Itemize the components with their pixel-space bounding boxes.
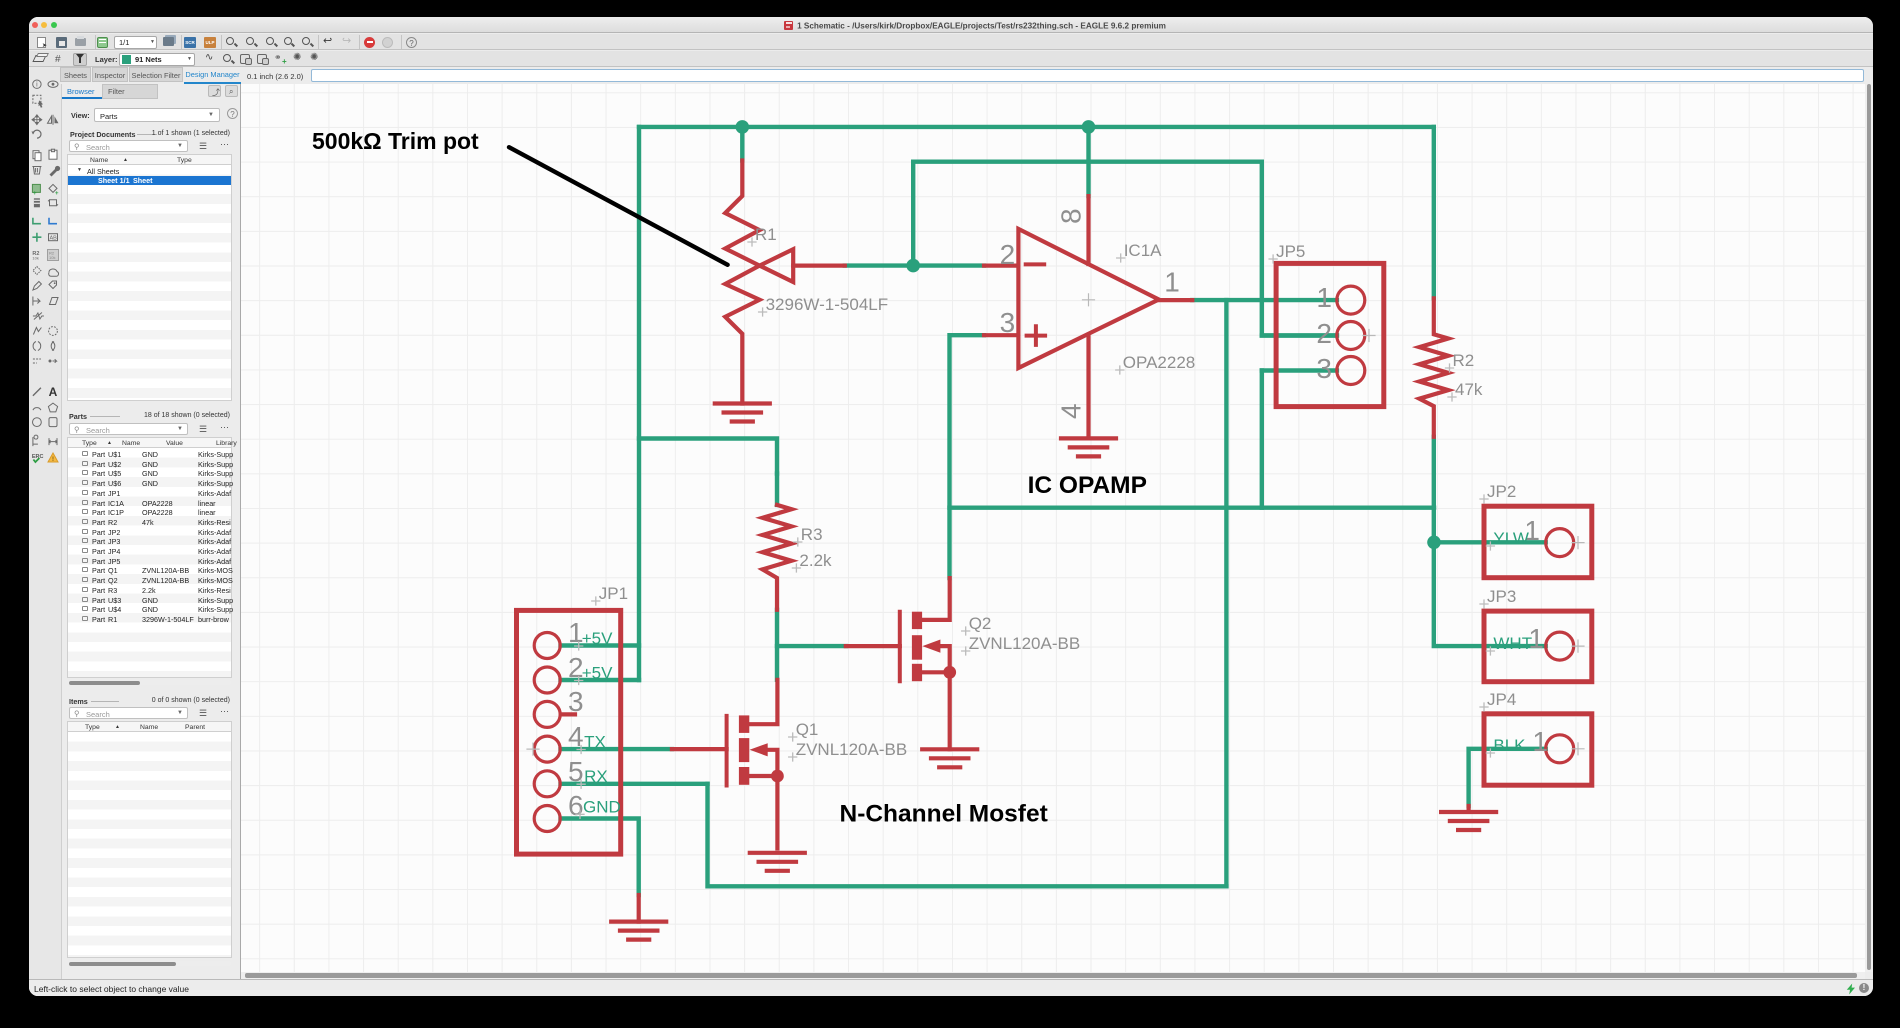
svg-text:4: 4 <box>1056 403 1087 419</box>
svg-text:JP1: JP1 <box>599 584 628 603</box>
svg-text:+5V: +5V <box>582 629 613 648</box>
pin number 2 JP5 <box>1316 318 1332 349</box>
wire R2 top net drop <box>1432 127 1436 298</box>
svg-text:+: + <box>33 191 37 197</box>
svg-text:8: 8 <box>1056 208 1087 224</box>
label Q2 value ZVNL120A-BB <box>962 634 1080 655</box>
wire JP5 pin2 stub part of feedback <box>1262 333 1337 337</box>
label JP1 name <box>592 584 628 605</box>
label IC1A value OPA2228 <box>1116 353 1195 374</box>
Project Documents <box>70 130 136 139</box>
ground U$1 under R1 <box>715 404 770 422</box>
wire R3 top teal segment <box>775 474 779 505</box>
svg-text:2.2k: 2.2k <box>799 551 832 570</box>
wire IC1A pin3 net <box>950 335 985 578</box>
net name +5V pin2 <box>575 664 613 685</box>
label R3 value 2.2k <box>792 551 832 572</box>
junction at IC1A pin8 drop on top rail <box>1082 120 1096 134</box>
wire JP5 pin3 stub <box>1262 368 1337 372</box>
svg-text:JP5: JP5 <box>1276 242 1305 261</box>
connector JP4 <box>1484 714 1592 785</box>
pin number 1 IC1A output <box>1164 266 1180 297</box>
svg-text:AB: AB <box>50 236 58 242</box>
label R2 value 47k <box>1448 380 1483 401</box>
label Q1 value ZVNL120A-BB <box>789 740 908 761</box>
ground U$6 under JP4 <box>1441 806 1496 830</box>
svg-text:OPA2228: OPA2228 <box>1123 353 1195 372</box>
svg-text:JP4: JP4 <box>1487 690 1516 709</box>
label R2 name <box>1446 351 1475 372</box>
canvas with schematic <box>241 84 1865 972</box>
svg-text:500kΩ Trim pot: 500kΩ Trim pot <box>312 128 479 154</box>
label R3 name <box>794 525 823 546</box>
title bar <box>29 17 1873 33</box>
svg-text:JP3: JP3 <box>1487 587 1516 606</box>
wire feedback up from wiper node <box>913 162 1337 336</box>
svg-text:!: ! <box>52 457 54 463</box>
tab row <box>60 67 241 84</box>
svg-text:1: 1 <box>1164 266 1180 297</box>
svg-text:3: 3 <box>1316 353 1332 384</box>
wire JP4 to ground <box>1469 749 1546 806</box>
wire JP1 pin4 TX to Q1 gate <box>561 747 672 751</box>
wire JP5 pin3 drop <box>1260 371 1264 508</box>
junction wiper node <box>906 259 920 273</box>
svg-text:i: i <box>36 82 38 89</box>
annotation arrow line to R1 <box>509 147 728 265</box>
wire IC1A output to JP5 pin1 <box>1192 298 1337 302</box>
svg-text:JP2: JP2 <box>1487 482 1516 501</box>
Browser / Filter tabs <box>67 87 95 96</box>
net name +5V pin1 <box>575 629 613 650</box>
net name TX <box>577 733 606 754</box>
label JP4 name <box>1480 690 1516 711</box>
connector JP2 <box>1484 506 1592 578</box>
svg-text:R2: R2 <box>1453 351 1475 370</box>
wire mid horizontal IC1A pin3 net to R2 bottom <box>950 506 1435 510</box>
net name BLK <box>1486 736 1526 757</box>
Items <box>69 697 88 706</box>
pin number 6 JP1 <box>568 790 584 821</box>
wire wiper to IC1A pin2 <box>845 263 984 267</box>
status bar <box>29 979 1873 996</box>
svg-text:+5V: +5V <box>582 664 613 683</box>
wire output drop to bottom rail <box>1224 300 1228 886</box>
pin number 3 JP5 <box>1316 353 1332 384</box>
svg-text:IC OPAMP: IC OPAMP <box>1028 472 1147 499</box>
svg-text:ZVNL120A-BB: ZVNL120A-BB <box>969 634 1080 653</box>
svg-text:1: 1 <box>1316 282 1332 313</box>
ground U$3 under Q1 <box>750 853 805 871</box>
toolbar row 1 <box>29 34 1873 50</box>
ground U$2 under IC1A pin4 <box>1061 438 1116 456</box>
net name RX <box>577 767 608 788</box>
annotation text IC OPAMP <box>1028 472 1147 499</box>
pin number 2 IC1A inverting <box>1000 239 1016 270</box>
trimpot R1 <box>725 161 845 404</box>
ground U$5 under JP1 pin6 <box>611 895 666 940</box>
pin number 1 JP2 <box>1524 515 1540 546</box>
connector JP3 <box>1484 611 1592 682</box>
svg-text:1: 1 <box>1532 726 1548 757</box>
label JP2 name <box>1480 482 1516 503</box>
svg-text:IC1A: IC1A <box>1124 241 1162 260</box>
svg-text:2: 2 <box>1000 239 1016 270</box>
op-amp IC1A OPA2228 <box>984 196 1192 435</box>
svg-text:47k: 47k <box>1455 380 1483 399</box>
label Q2 name <box>962 614 992 635</box>
pin number 1 JP3 <box>1528 623 1544 654</box>
wire bottom rail to RX <box>708 784 1227 887</box>
toolbar row 2 <box>29 51 1873 67</box>
wire net N$1 left vertical <box>637 127 641 680</box>
svg-text:3: 3 <box>568 686 584 717</box>
wire net N$1 top horizontal rail <box>639 125 1434 129</box>
net name WHT <box>1486 634 1532 655</box>
wire JP2 stub <box>1434 540 1546 544</box>
label R1 value 3296W-1-504LF <box>759 295 889 316</box>
svg-text:Q1: Q1 <box>796 720 819 739</box>
svg-text:GND: GND <box>583 797 621 816</box>
svg-text:A: A <box>49 385 58 399</box>
Parts <box>69 412 87 421</box>
wire JP1 pin5 RX stub <box>561 782 708 786</box>
label R1 name <box>748 225 777 246</box>
connector JP1 <box>517 610 621 854</box>
wire R3 node to Q2 gate <box>777 644 846 648</box>
svg-text:10k: 10k <box>32 256 38 261</box>
svg-text:N-Channel Mosfet: N-Channel Mosfet <box>840 801 1048 828</box>
svg-text:ZVNL120A-BB: ZVNL120A-BB <box>796 740 908 759</box>
pin number 3 IC1A non-inverting <box>1000 307 1016 338</box>
label IC1A name <box>1117 241 1162 262</box>
svg-text:R1: R1 <box>755 225 777 244</box>
wire R3 bottom net <box>775 610 779 680</box>
svg-text:2: 2 <box>1316 318 1332 349</box>
pin number 8 IC1A V+ <box>1056 208 1087 224</box>
svg-text:+: + <box>55 191 59 197</box>
svg-text:Q2: Q2 <box>969 614 992 633</box>
pin number 1 JP4 <box>1532 726 1548 757</box>
svg-text:R3: R3 <box>801 525 823 544</box>
svg-text:10k: 10k <box>49 255 55 260</box>
svg-text:YLW: YLW <box>1493 529 1529 548</box>
junction JP2 branch node <box>1427 536 1441 550</box>
wire IC1A pin8 net drop <box>1086 127 1090 196</box>
svg-text:3296W-1-504LF: 3296W-1-504LF <box>766 295 889 314</box>
left icon strip <box>29 67 62 996</box>
transistor Q1 ZVNL120A-BB <box>672 680 784 849</box>
svg-text:BLK: BLK <box>1493 736 1526 755</box>
transistor Q2 ZVNL120A-BB <box>846 578 956 749</box>
wire JP1 pin6 GND stub <box>561 819 639 896</box>
svg-text:WHT: WHT <box>1493 634 1532 653</box>
label Q1 name <box>789 720 819 741</box>
left panel <box>62 67 241 996</box>
svg-text:RX: RX <box>584 767 608 786</box>
wire JP1 pin2 +5V stub <box>561 678 640 682</box>
junction at R1 top on top rail <box>736 120 750 134</box>
annotation text 500k trim pot <box>312 128 479 154</box>
pin number 2 JP1 <box>568 652 584 683</box>
svg-text:TX: TX <box>584 733 606 752</box>
ground U$4 under Q2 <box>922 749 977 767</box>
label JP3 name <box>1480 587 1516 608</box>
label JP5 name <box>1269 242 1305 263</box>
wire R1 top lead net <box>740 127 744 161</box>
net name GND <box>576 797 621 818</box>
wire branch to R3 top <box>639 439 777 474</box>
pin number 1 JP1 <box>568 617 584 648</box>
pin number 4 IC1A V- <box>1056 403 1087 419</box>
resistor R2 <box>1419 298 1448 437</box>
pin number 4 JP1 <box>568 721 584 752</box>
svg-text:6: 6 <box>568 790 584 821</box>
annotation text N-Channel Mosfet <box>840 801 1048 828</box>
pin number 3 JP1 <box>568 686 584 717</box>
coordinate + command bar <box>241 67 1865 84</box>
pin number 5 JP1 <box>568 756 584 787</box>
resistor R3 <box>763 505 792 610</box>
pin number 1 JP5 <box>1316 282 1332 313</box>
View row <box>71 111 90 120</box>
wire JP1 pin1 +5V stub <box>561 643 640 647</box>
net name YLW <box>1486 529 1529 550</box>
connector JP5 <box>1276 263 1384 406</box>
wire R2 bottom net down to JP3 <box>1434 437 1546 646</box>
svg-text:3: 3 <box>1000 307 1016 338</box>
